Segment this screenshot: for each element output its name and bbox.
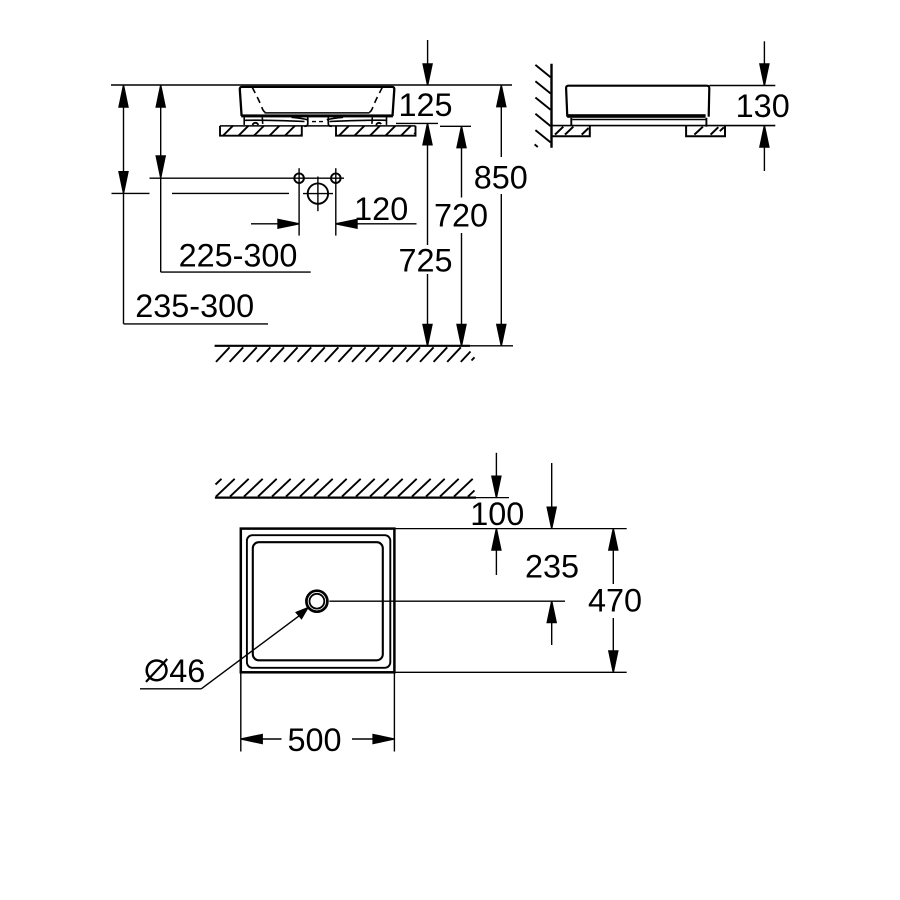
- drain diameter leader: [140, 608, 308, 689]
- dimension 225-300: [156, 85, 311, 272]
- dimension 100: [492, 453, 501, 575]
- counter line (side): [552, 125, 776, 127]
- svg-text:235: 235: [525, 548, 579, 584]
- basin plan outer square: [241, 529, 395, 673]
- counter left slab (side): [552, 126, 590, 137]
- dimension 720: [457, 126, 466, 345]
- faucet reference line upper: [150, 177, 345, 179]
- svg-text:470: 470: [588, 583, 642, 619]
- mixer hole center: [308, 183, 328, 203]
- wall line (plan): [215, 497, 476, 499]
- counter right slab (side): [686, 126, 725, 137]
- dimension 130: [709, 41, 775, 171]
- svg-text:500: 500: [287, 722, 341, 758]
- basin front outline: [240, 87, 395, 118]
- svg-text:720: 720: [434, 198, 488, 234]
- extension line 720 level: [440, 125, 471, 127]
- basin interior dashed curves: [252, 87, 382, 125]
- svg-text:225-300: 225-300: [179, 237, 298, 273]
- plan top extension line: [394, 528, 626, 530]
- svg-text:125: 125: [398, 87, 452, 123]
- svg-text:850: 850: [474, 159, 528, 195]
- drain trap under basin: [253, 117, 382, 126]
- extension line 725 level: [396, 122, 438, 124]
- wall hatching (plan): [216, 479, 475, 497]
- basin plan inner rim: [247, 535, 390, 668]
- floor hatching: [216, 347, 475, 362]
- wall line: [550, 64, 552, 148]
- dimension 470: [609, 529, 618, 673]
- svg-text:235-300: 235-300: [135, 288, 254, 324]
- svg-text:130: 130: [736, 88, 790, 124]
- rim reference line: [111, 84, 512, 86]
- faucet reference line lower: [112, 192, 150, 194]
- counter top line (front): [220, 125, 416, 127]
- basin plan bowl edge: [253, 542, 383, 660]
- dimension 120: [251, 219, 417, 228]
- svg-text:120: 120: [354, 191, 408, 227]
- faucet hole left: [294, 173, 304, 183]
- counter right slab (front): [336, 126, 416, 136]
- plan bottom extension line: [394, 671, 626, 673]
- drain centerline: [329, 600, 565, 602]
- dimension 850: [497, 85, 506, 346]
- dimension 725: [423, 123, 432, 345]
- svg-text:725: 725: [398, 243, 452, 279]
- svg-text:100: 100: [470, 496, 524, 532]
- basin foot side: [570, 118, 572, 126]
- drain inner circle: [310, 594, 325, 609]
- counter left slab (front): [220, 126, 302, 136]
- dimension 235: [547, 463, 556, 645]
- drain ring: [306, 591, 327, 612]
- wall hatching: [535, 65, 551, 147]
- dimension 500: [241, 673, 395, 751]
- dimension 235-300: [119, 85, 268, 324]
- basin foot: [244, 117, 386, 125]
- dimension 125 arrow: [423, 40, 432, 85]
- label diameter 46: [146, 653, 205, 689]
- basin side outline: [566, 86, 709, 118]
- faucet hole right: [331, 173, 341, 183]
- svg-text:46: 46: [169, 653, 205, 689]
- floor line: [215, 345, 470, 347]
